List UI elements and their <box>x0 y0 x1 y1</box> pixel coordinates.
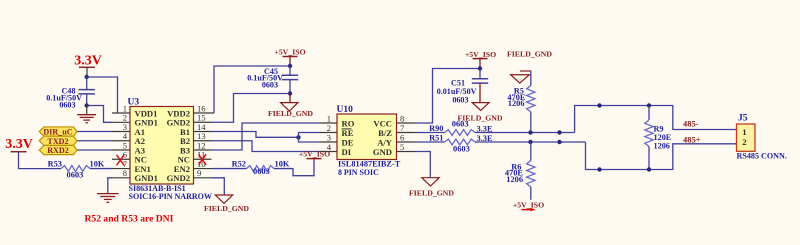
svg-text:10K: 10K <box>90 160 105 169</box>
wire U3 pin 12 to U10 pin 1 RO <box>212 123 320 150</box>
pin 8 stub U10 <box>397 122 415 124</box>
svg-text:R52 and R53 are DNI: R52 and R53 are DNI <box>85 214 174 225</box>
svg-text:8: 8 <box>123 168 127 178</box>
svg-text:R52: R52 <box>232 160 246 169</box>
U10 RE overline <box>342 128 352 130</box>
svg-text:1206: 1206 <box>508 99 525 108</box>
svg-text:485-: 485- <box>683 118 699 128</box>
node B/Z junction <box>557 130 561 134</box>
svg-text:2: 2 <box>742 137 747 147</box>
resistor R90 3.3E <box>445 130 476 136</box>
pin 12 stub U3 <box>194 149 212 151</box>
wire TXD2 to U3 pin 4 <box>77 140 112 142</box>
svg-text:R53: R53 <box>48 160 62 169</box>
wire U10 pin 6 to R51 <box>415 141 445 143</box>
svg-text:3.3V: 3.3V <box>5 137 33 152</box>
net label RXD2 <box>39 145 77 154</box>
resistor R53 10K <box>61 166 90 172</box>
field ground under C51 <box>472 103 489 111</box>
svg-text:+5V_ISO: +5V_ISO <box>274 47 305 56</box>
svg-text:DI: DI <box>342 147 352 157</box>
svg-text:VCC: VCC <box>373 118 392 128</box>
no-connect X on U3 pin 11 <box>199 154 207 165</box>
pin 6 stub U10 <box>397 141 415 143</box>
node R9 bottom <box>647 167 651 171</box>
svg-text:GND1: GND1 <box>135 173 158 183</box>
capacitor C48 <box>86 77 88 89</box>
connector J5 RS485 <box>737 124 756 151</box>
resistor R52 10K <box>247 166 275 172</box>
wire R6 to +5V_ISO <box>530 187 532 200</box>
pin 1 stub U3 <box>112 112 130 114</box>
field ground under U10 pin 5 <box>422 178 439 186</box>
node +5V_ISO / C45 junction <box>288 64 292 68</box>
pin 13 stub U3 <box>194 140 212 142</box>
pin 1 stub U10 <box>319 122 337 124</box>
svg-text:SOIC16-PIN NARROW: SOIC16-PIN NARROW <box>129 192 212 201</box>
node C45 bottom junction <box>288 91 292 95</box>
wire junction to U10 pin 3 DE <box>299 137 320 142</box>
net label DIR_uC <box>39 127 77 136</box>
svg-text:1206: 1206 <box>506 175 523 184</box>
resistor R6 470E <box>527 161 535 188</box>
wire U10 pin 7 to R90 <box>415 132 445 134</box>
svg-text:U10: U10 <box>337 105 354 115</box>
svg-text:2: 2 <box>327 123 331 133</box>
svg-text:DIR_uC: DIR_uC <box>43 128 72 137</box>
svg-text:6: 6 <box>400 132 405 142</box>
svg-text:0603: 0603 <box>59 100 75 109</box>
pin 4 stub U10 <box>319 151 337 153</box>
pin 8 stub U3 <box>112 177 130 179</box>
wire U10 pin 5 GND to field ground <box>415 152 431 178</box>
svg-text:FIELD_GND: FIELD_GND <box>409 188 454 197</box>
wire U3 pin 13 to U10 pin 4 DI <box>212 141 320 152</box>
wire C48 to U3 pin 2 <box>87 106 112 123</box>
wire A/Y down over to J5 485+ <box>586 142 737 170</box>
svg-text:7: 7 <box>400 123 405 133</box>
svg-text:0603: 0603 <box>253 167 270 176</box>
svg-text:RO: RO <box>342 118 355 128</box>
svg-text:U3: U3 <box>128 97 140 107</box>
svg-text:+5V_ISO: +5V_ISO <box>299 149 330 158</box>
svg-text:R90: R90 <box>429 124 443 133</box>
wire 3.3V to U3 pin 1 <box>87 77 118 113</box>
pin 6 NC stub U3 <box>112 158 130 160</box>
svg-text:0603: 0603 <box>262 80 278 89</box>
pin 11 NC stub U3 <box>194 158 212 160</box>
node C51 top junction <box>478 66 482 70</box>
pin 5 stub U10 <box>397 151 415 153</box>
svg-text:0603: 0603 <box>67 170 84 179</box>
wire U3 pin 9 to field ground <box>212 178 225 195</box>
wire R90 to 485- rail <box>475 132 575 134</box>
wire +5V_ISO rail to U3 pin 16 <box>214 66 290 113</box>
ground under C48 <box>86 106 88 115</box>
pin 16 stub U3 <box>194 112 215 114</box>
node R9 top <box>647 103 651 107</box>
svg-text:R51: R51 <box>429 134 443 143</box>
node RE/DE junction <box>296 135 300 139</box>
wire R51 to 485+ rail <box>475 141 586 143</box>
svg-text:FIELD_GND: FIELD_GND <box>204 204 249 213</box>
pin 10 stub U3 <box>194 168 212 170</box>
svg-text:GND: GND <box>373 147 392 157</box>
svg-text:4: 4 <box>327 142 332 152</box>
wire junction to U10 pin 2 RE <box>299 133 320 138</box>
svg-text:A/Y: A/Y <box>377 137 393 147</box>
wire R53 to U3 pin 7 <box>90 168 112 170</box>
svg-text:3.3V: 3.3V <box>74 54 102 69</box>
field ground under C45 <box>289 94 291 103</box>
svg-text:B/Z: B/Z <box>378 128 392 138</box>
pin 14 stub U3 <box>194 131 212 133</box>
wire U3 pin 8 to ground <box>108 178 112 194</box>
svg-text:9: 9 <box>197 168 201 178</box>
svg-text:DE: DE <box>342 137 354 147</box>
wire RXD2 to U3 pin 5 <box>77 149 112 151</box>
node R5 to B/Z <box>528 130 532 134</box>
svg-text:1206: 1206 <box>654 141 670 150</box>
svg-text:FIELD_GND: FIELD_GND <box>268 109 313 118</box>
svg-text:1: 1 <box>327 113 331 123</box>
svg-text:RXD2: RXD2 <box>47 146 69 155</box>
ground under U3 pin 8 <box>97 193 119 195</box>
wire A/Y row to R6 <box>530 142 532 161</box>
transceiver U10 ISL81487EIBZ-T <box>337 114 397 160</box>
svg-text:+5V_ISO: +5V_ISO <box>465 50 496 59</box>
wire R5 to B/Z row <box>530 112 532 133</box>
svg-text:0603: 0603 <box>453 144 470 153</box>
svg-text:+5V_ISO: +5V_ISO <box>513 201 544 210</box>
svg-text:FIELD_GND: FIELD_GND <box>507 49 552 58</box>
wire R52 to +5V_ISO <box>274 159 314 176</box>
pin 2 stub U3 <box>112 121 130 123</box>
node 3V3 junction <box>85 75 89 79</box>
svg-text:3: 3 <box>327 132 331 142</box>
capacitor C45 <box>289 66 291 75</box>
svg-text:J5: J5 <box>738 114 748 124</box>
svg-text:8: 8 <box>400 113 404 123</box>
svg-text:10K: 10K <box>275 160 290 169</box>
pin 2 stub U10 <box>319 132 337 134</box>
node R6 to A/Y <box>528 140 532 144</box>
resistor R51 3.3E <box>445 139 476 145</box>
svg-text:1: 1 <box>742 127 746 137</box>
wire U3 pin 14 to U10 RE/DE junction <box>212 132 299 138</box>
pin 9 stub U3 <box>194 177 212 179</box>
svg-text:0603: 0603 <box>452 95 468 104</box>
svg-text:TXD2: TXD2 <box>47 137 68 146</box>
wire 3.3V to R53 <box>19 152 62 169</box>
pin 15 stub U3 <box>194 121 212 123</box>
node top rail <box>597 103 601 107</box>
wire DIR_uC to U3 pin 3 <box>77 131 112 133</box>
svg-text:RS485 CONN.: RS485 CONN. <box>737 151 787 160</box>
svg-text:485+: 485+ <box>683 134 701 144</box>
node A/Y junction <box>557 140 561 144</box>
net label TXD2 <box>39 136 77 145</box>
no-connect X on U3 pin 6 <box>117 155 125 166</box>
node bottom rail <box>597 167 601 171</box>
resistor R5 470E <box>527 86 535 113</box>
capacitor C51 <box>479 69 481 79</box>
resistor R9 120E <box>648 106 650 121</box>
field ground under U3 pin 9 <box>215 195 232 203</box>
pin 3 stub U10 <box>319 141 337 143</box>
svg-text:0603: 0603 <box>452 119 469 128</box>
pin 7 stub U10 <box>397 132 415 134</box>
svg-text:8 PIN SOIC: 8 PIN SOIC <box>338 168 379 177</box>
node C48 bottom junction <box>85 103 89 107</box>
wire U3 pin 10 to R52 <box>212 168 247 170</box>
svg-text:GND2: GND2 <box>167 173 190 183</box>
isolator U3 SI8631AB-B-IS1 <box>130 107 194 185</box>
wire B/Z up over to J5 485- <box>575 106 737 133</box>
wire U10 pin 8 VCC to +5V_ISO <box>415 69 481 124</box>
wire C45 bottom to U3 pin 15 <box>212 94 291 123</box>
svg-text:5: 5 <box>400 142 404 152</box>
